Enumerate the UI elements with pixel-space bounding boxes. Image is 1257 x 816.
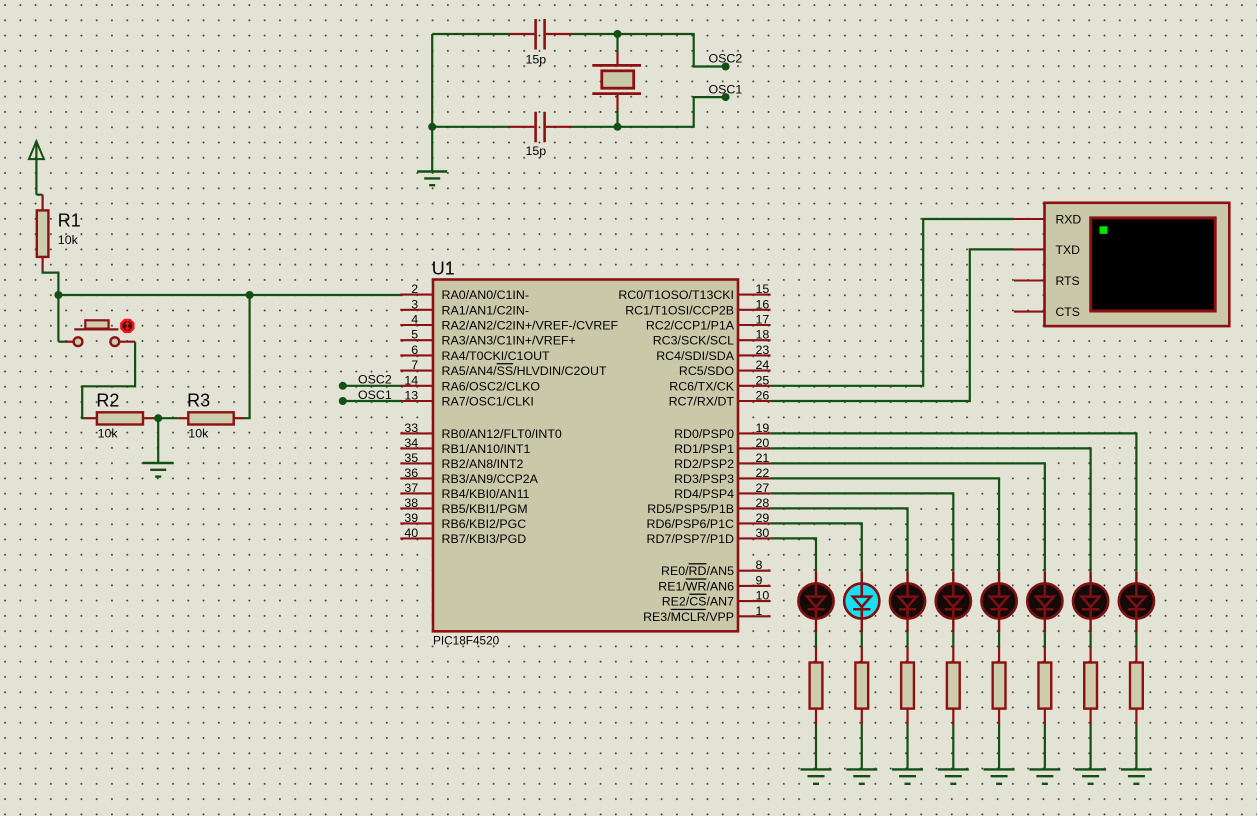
svg-text:30: 30 xyxy=(756,526,770,540)
pin 24 (RC5/SDO) stub xyxy=(738,370,771,372)
wire: resistor R6 to ground xyxy=(906,725,908,769)
svg-text:U1: U1 xyxy=(432,258,455,278)
wire: resistor R4 to ground xyxy=(815,725,817,769)
pin 2 (RA0/AN0/C1IN-) stub xyxy=(400,294,433,296)
wire: LED D3 to resistor xyxy=(906,633,908,648)
wire: resistor R7 to ground xyxy=(952,725,954,769)
LED D6 xyxy=(1027,572,1062,633)
pin 1 (RE3/MCLR/VPP) stub xyxy=(738,615,771,617)
ground (LED chain 1) xyxy=(801,769,832,783)
wire: U1 pin 27 to LED column 4 xyxy=(771,493,954,571)
wire: U1 pin 20 to LED column 7 xyxy=(771,448,1091,571)
svg-text:10k: 10k xyxy=(58,233,79,247)
svg-text:RD7/PSP7/P1D: RD7/PSP7/P1D xyxy=(647,532,735,546)
svg-text:7: 7 xyxy=(411,358,418,372)
svg-text:36: 36 xyxy=(404,466,418,480)
pin 7 (RA5/AN4/SS/HLVDIN/C2OUT) stub xyxy=(400,370,433,372)
svg-text:CTS: CTS xyxy=(1056,305,1080,319)
push button SW1 xyxy=(66,320,135,346)
svg-text:RB1/AN10/INT1: RB1/AN10/INT1 xyxy=(442,442,531,456)
pin 37 (RB4/KBI0/AN11) stub xyxy=(400,492,433,494)
resistor R2 10k (horizontal) xyxy=(85,412,154,424)
svg-text:29: 29 xyxy=(756,511,770,525)
ground (R2/R3 divider) xyxy=(143,463,174,477)
pin 28 (RD5/PSP5/P1B) stub xyxy=(738,507,771,509)
ground (LED chain 3) xyxy=(892,769,923,783)
node: junction bottom of crystal xyxy=(614,123,622,131)
svg-text:15p: 15p xyxy=(526,144,547,158)
wire: LED D1 to resistor xyxy=(815,633,817,648)
power terminal (up arrow) xyxy=(29,141,44,195)
wire: drop to OSC2 terminal xyxy=(694,34,722,67)
svg-text:35: 35 xyxy=(404,451,418,465)
pin 18 (RC3/SCK/SCL) stub xyxy=(738,339,771,341)
terminal screen xyxy=(1091,218,1216,311)
svg-text:RB6/KBI2/PGC: RB6/KBI2/PGC xyxy=(442,517,527,531)
pin 23 (RC4/SDI/SDA) stub xyxy=(738,354,771,356)
wire: LED D4 to resistor xyxy=(952,633,954,648)
svg-text:RE3/MCLR/VPP: RE3/MCLR/VPP xyxy=(643,610,734,624)
wire: down to ground xyxy=(431,127,433,172)
terminal pin RTS stub xyxy=(1014,279,1045,281)
wire: U1 pin 21 to LED column 6 xyxy=(771,463,1045,571)
wire: bottom net OSC1 horizontal xyxy=(432,126,509,128)
resistor R7 (LED limiter, vertical) xyxy=(947,647,960,725)
wire: LED D5 to resistor xyxy=(998,633,1000,648)
svg-text:RD6/PSP6/P1C: RD6/PSP6/P1C xyxy=(647,517,735,531)
pin 4 (RA2/AN2/C2IN+/VREF-/CVREF) stub xyxy=(400,324,433,326)
svg-text:6: 6 xyxy=(411,343,418,357)
svg-text:13: 13 xyxy=(404,389,418,403)
svg-text:21: 21 xyxy=(756,451,770,465)
svg-text:PIC18F4520: PIC18F4520 xyxy=(433,634,500,648)
svg-text:39: 39 xyxy=(404,511,418,525)
ground (LED chain 7) xyxy=(1075,769,1106,783)
resistor R10 (LED limiter, vertical) xyxy=(1084,647,1097,725)
resistor R9 (LED limiter, vertical) xyxy=(1038,647,1051,725)
wire: center junction down to ground xyxy=(157,418,159,462)
wire: LED D2 to resistor xyxy=(861,633,863,648)
resistor R5 (LED limiter, vertical) xyxy=(855,647,868,725)
pin 36 (RB3/AN9/CCP2A) stub xyxy=(400,477,433,479)
svg-text:RE2/CS/AN7: RE2/CS/AN7 xyxy=(662,595,734,609)
svg-text:15: 15 xyxy=(756,282,770,296)
ground (LED chain 4) xyxy=(938,769,969,783)
pin 19 (RD0/PSP0) stub xyxy=(738,432,771,434)
svg-text:RB5/KBI1/PGM: RB5/KBI1/PGM xyxy=(442,502,528,516)
svg-text:1: 1 xyxy=(756,604,763,618)
wire: down to push button xyxy=(57,295,59,342)
svg-text:RC3/SCK/SCL: RC3/SCK/SCL xyxy=(653,334,734,348)
pin 6 (RA4/T0CKI/C1OUT) stub xyxy=(400,354,433,356)
wire: resistor R8 to ground xyxy=(998,725,1000,769)
svg-text:OSC2: OSC2 xyxy=(358,373,392,387)
svg-text:15p: 15p xyxy=(526,53,547,67)
svg-text:22: 22 xyxy=(756,466,770,480)
pin 33 (RB0/AN12/FLT0/INT0) stub xyxy=(400,432,433,434)
svg-text:RB7/KBI3/PGD: RB7/KBI3/PGD xyxy=(442,532,527,546)
pin 16 (RC1/T1OSI/CCP2B) stub xyxy=(738,309,771,311)
virtual terminal instrument body xyxy=(1045,203,1230,326)
pin 5 (RA3/AN3/C1IN+/VREF+) stub xyxy=(400,339,433,341)
svg-text:RD4/PSP4: RD4/PSP4 xyxy=(674,487,734,501)
pin 15 (RC0/T1OSO/T13CKI) stub xyxy=(738,294,771,296)
pin 13 (RA7/OSC1/CLKI) stub xyxy=(400,400,433,402)
svg-text:RC5/SDO: RC5/SDO xyxy=(679,364,734,378)
svg-text:RC1/T1OSI/CCP2B: RC1/T1OSI/CCP2B xyxy=(625,303,734,317)
svg-text:RD3/PSP3: RD3/PSP3 xyxy=(674,472,734,486)
ground (LED chain 2) xyxy=(846,769,877,783)
svg-text:9: 9 xyxy=(756,573,763,587)
terminal pin CTS stub xyxy=(1014,311,1045,313)
resistor R3 10k (horizontal) xyxy=(178,412,244,424)
terminal pin RXD stub xyxy=(1014,218,1045,220)
svg-text:RC2/CCP1/P1A: RC2/CCP1/P1A xyxy=(646,319,735,333)
svg-text:OSC1: OSC1 xyxy=(358,388,392,402)
wire: TXD to U1 pin 26 (RC7/RX/DT) xyxy=(771,249,1014,401)
wire: rise to OSC1 terminal xyxy=(694,97,722,127)
pin 26 (RC7/RX/DT) stub xyxy=(738,400,771,402)
pin 40 (RB7/KBI3/PGD) stub xyxy=(400,537,433,539)
svg-text:25: 25 xyxy=(756,373,770,387)
wire: LED D7 to resistor xyxy=(1090,633,1092,648)
pin 9 (RE1/WR/AN6) stub xyxy=(738,585,771,587)
svg-text:RD2/PSP2: RD2/PSP2 xyxy=(674,457,734,471)
wire: top net OSC2 horizontal xyxy=(432,33,509,35)
svg-text:TXD: TXD xyxy=(1056,243,1081,257)
wire: to button left terminal xyxy=(58,341,66,343)
svg-text:R1: R1 xyxy=(58,211,81,231)
node OSC1 (terminal dot at U1) xyxy=(339,397,347,405)
svg-text:RD0/PSP0: RD0/PSP0 xyxy=(674,427,734,441)
svg-text:40: 40 xyxy=(404,526,418,540)
resistor R6 (LED limiter, vertical) xyxy=(901,647,914,725)
pin 17 (RC2/CCP1/P1A) stub xyxy=(738,324,771,326)
svg-text:14: 14 xyxy=(404,373,418,387)
svg-text:RD5/PSP5/P1B: RD5/PSP5/P1B xyxy=(647,502,734,516)
svg-text:2: 2 xyxy=(411,282,418,296)
svg-text:RA3/AN3/C1IN+/VREF+: RA3/AN3/C1IN+/VREF+ xyxy=(442,334,576,348)
svg-text:37: 37 xyxy=(404,481,418,495)
LED D3 xyxy=(890,572,925,633)
svg-text:OSC1: OSC1 xyxy=(709,82,743,96)
svg-text:26: 26 xyxy=(756,389,770,403)
pin 3 (RA1/AN1/C2IN-) stub xyxy=(400,309,433,311)
pin 21 (RD2/PSP2) stub xyxy=(738,462,771,464)
wire: button right terminal down to R2 xyxy=(82,342,135,419)
pin 20 (RD1/PSP1) stub xyxy=(738,447,771,449)
svg-text:R3: R3 xyxy=(187,391,210,411)
svg-text:R2: R2 xyxy=(96,391,119,411)
capacitor C2 value 15p xyxy=(509,112,572,143)
pin 29 (RD6/PSP6/P1C) stub xyxy=(738,522,771,524)
svg-text:4: 4 xyxy=(411,313,418,327)
pin 14 (RA6/OSC2/CLKO) stub xyxy=(400,385,433,387)
svg-text:34: 34 xyxy=(404,436,418,450)
svg-text:RC4/SDI/SDA: RC4/SDI/SDA xyxy=(656,349,735,363)
svg-text:OSC2: OSC2 xyxy=(709,52,743,66)
svg-text:RE0/RD/AN5: RE0/RD/AN5 xyxy=(661,564,734,578)
ground (LED chain 5) xyxy=(984,769,1015,783)
pin 38 (RB5/KBI1/PGM) stub xyxy=(400,507,433,509)
wire: resistor R10 to ground xyxy=(1090,725,1092,769)
svg-text:RA7/OSC1/CLKI: RA7/OSC1/CLKI xyxy=(442,395,534,409)
wire: main horizontal net to U1 pin RA0 xyxy=(58,294,402,296)
svg-text:10: 10 xyxy=(756,589,770,603)
resistor R11 (LED limiter, vertical) xyxy=(1130,647,1143,725)
LED D5 xyxy=(981,572,1016,633)
wire: U1 pin 29 to LED column 2 xyxy=(771,523,862,571)
LED D4 xyxy=(936,572,971,633)
wire: R1 bottom jog to junction xyxy=(43,271,59,295)
pin 39 (RB6/KBI2/PGC) stub xyxy=(400,522,433,524)
svg-text:RB3/AN9/CCP2A: RB3/AN9/CCP2A xyxy=(442,472,539,486)
resistor R8 (LED limiter, vertical) xyxy=(993,647,1006,725)
svg-text:16: 16 xyxy=(756,297,770,311)
svg-text:17: 17 xyxy=(756,313,770,327)
svg-text:RA5/AN4/SS/HLVDIN/C2OUT: RA5/AN4/SS/HLVDIN/C2OUT xyxy=(442,364,607,378)
wire: resistor R9 to ground xyxy=(1044,725,1046,769)
node OSC2 (terminal dot at U1) xyxy=(339,382,347,390)
wire: resistor R5 to ground xyxy=(861,725,863,769)
pin 8 (RE0/RD/AN5) stub xyxy=(738,570,771,572)
svg-text:5: 5 xyxy=(411,328,418,342)
svg-text:3: 3 xyxy=(411,297,418,311)
svg-text:27: 27 xyxy=(756,481,770,495)
svg-text:RXD: RXD xyxy=(1056,213,1082,227)
button actuator knob (red octagon) xyxy=(121,320,133,332)
wire: bottom net from C2 to right xyxy=(572,126,695,128)
svg-text:RA0/AN0/C1IN-: RA0/AN0/C1IN- xyxy=(442,288,529,302)
LED D8 xyxy=(1119,572,1154,633)
svg-text:10k: 10k xyxy=(188,426,209,440)
svg-text:RB2/AN8/INT2: RB2/AN8/INT2 xyxy=(442,457,524,471)
wire: RXD to U1 pin 25 (RC6/TX/CK) xyxy=(771,219,1014,386)
wire: R2 to center junction xyxy=(154,417,159,419)
LED D1 xyxy=(798,572,833,633)
svg-text:23: 23 xyxy=(756,343,770,357)
svg-text:24: 24 xyxy=(756,358,770,372)
wire: junction to R3 xyxy=(158,417,178,419)
svg-text:RTS: RTS xyxy=(1056,274,1080,288)
terminal cursor block xyxy=(1100,226,1108,234)
node OSC2 (net terminal dot) xyxy=(722,63,730,71)
pin 27 (RD4/PSP4) stub xyxy=(738,492,771,494)
pin 35 (RB2/AN8/INT2) stub xyxy=(400,462,433,464)
svg-text:RA2/AN2/C2IN+/VREF-/CVREF: RA2/AN2/C2IN+/VREF-/CVREF xyxy=(442,319,619,333)
node: junction R2/R3/ground xyxy=(154,414,162,422)
pin 10 (RE2/CS/AN7) stub xyxy=(738,600,771,602)
node OSC1 (net terminal dot) xyxy=(722,93,730,101)
svg-text:RC0/T1OSO/T13CKI: RC0/T1OSO/T13CKI xyxy=(618,288,734,302)
node: junction at R3 riser xyxy=(246,291,254,299)
ground (LED chain 8) xyxy=(1121,769,1152,783)
svg-text:RB0/AN12/FLT0/INT0: RB0/AN12/FLT0/INT0 xyxy=(442,427,562,441)
wire: resistor R11 to ground xyxy=(1135,725,1137,769)
resistor R4 (LED limiter, vertical) xyxy=(810,647,823,725)
terminal pin TXD stub xyxy=(1014,248,1045,250)
LED D2 (lit, cyan) xyxy=(844,572,879,633)
pin 22 (RD3/PSP3) stub xyxy=(738,477,771,479)
node: junction at R1 bottom xyxy=(54,291,62,299)
wire: jog to R1 top xyxy=(36,194,42,196)
node: junction left bottom xyxy=(428,123,436,131)
svg-text:38: 38 xyxy=(404,496,418,510)
svg-text:18: 18 xyxy=(756,328,770,342)
ground (LED chain 6) xyxy=(1029,769,1060,783)
svg-text:28: 28 xyxy=(756,496,770,510)
wire: U1 pin 30 to LED column 1 xyxy=(771,538,816,571)
svg-text:10k: 10k xyxy=(98,426,119,440)
wire: U1 pin 22 to LED column 5 xyxy=(771,478,999,571)
pin 34 (RB1/AN10/INT1) stub xyxy=(400,447,433,449)
svg-text:RE1/WR/AN6: RE1/WR/AN6 xyxy=(658,579,734,593)
svg-text:RA6/OSC2/CLKO: RA6/OSC2/CLKO xyxy=(442,379,541,393)
crystal X1 xyxy=(592,34,641,127)
wire: R3 right riser up to main net xyxy=(244,295,250,418)
pin 30 (RD7/PSP7/P1D) stub xyxy=(738,537,771,539)
svg-text:RC6/TX/CK: RC6/TX/CK xyxy=(669,379,734,393)
svg-text:33: 33 xyxy=(404,421,418,435)
LED D7 xyxy=(1073,572,1108,633)
svg-text:19: 19 xyxy=(756,421,770,435)
wire: U1 pin 28 to LED column 3 xyxy=(771,508,908,571)
op-amp U1 body -- microcontroller PIC18F4520 xyxy=(433,280,738,632)
ground (crystal) xyxy=(417,172,447,186)
wire: left vertical joining both nets xyxy=(431,34,433,127)
pin 25 (RC6/TX/CK) stub xyxy=(738,385,771,387)
wire: U1 pin 19 to LED column 8 xyxy=(771,433,1137,571)
wire: OSC2 stub into pin 14 xyxy=(344,385,403,387)
svg-text:20: 20 xyxy=(756,436,770,450)
svg-text:RB4/KBI0/AN11: RB4/KBI0/AN11 xyxy=(442,487,530,501)
svg-text:8: 8 xyxy=(756,558,763,572)
wire: OSC1 stub into pin 13 xyxy=(344,400,403,402)
wire: top net from C1 to crystal junction xyxy=(572,33,695,35)
resistor R1 10k (vertical) xyxy=(37,195,49,272)
wire: LED D8 to resistor xyxy=(1135,633,1137,648)
svg-text:RA4/T0CKI/C1OUT: RA4/T0CKI/C1OUT xyxy=(442,349,551,363)
svg-text:RD1/PSP1: RD1/PSP1 xyxy=(674,442,734,456)
wire: LED D6 to resistor xyxy=(1044,633,1046,648)
svg-text:RA1/AN1/C2IN-: RA1/AN1/C2IN- xyxy=(442,303,529,317)
capacitor C1 value 15p xyxy=(509,19,572,50)
svg-text:RC7/RX/DT: RC7/RX/DT xyxy=(669,395,735,409)
node: junction top of crystal xyxy=(614,30,622,38)
